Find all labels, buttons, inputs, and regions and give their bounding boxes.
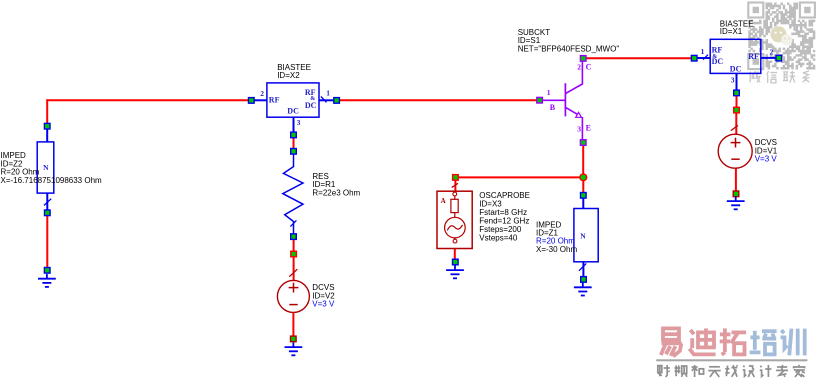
svg-text:1: 1 bbox=[547, 88, 551, 97]
svg-text:Vsteps=40: Vsteps=40 bbox=[479, 234, 518, 243]
pin number X2-2 bbox=[260, 89, 264, 98]
node: wire end at oscaprobe bbox=[453, 175, 459, 181]
wire: collector bus Q1 to X1 pin1 bbox=[586, 57, 691, 59]
node: wire end above V2 bbox=[291, 251, 297, 257]
impedance Z2 pin2 stub bbox=[46, 193, 48, 210]
wire: X1 pin3 segment bbox=[736, 96, 738, 108]
node: Q1 collector pin bbox=[580, 56, 586, 62]
svg-text:3: 3 bbox=[297, 118, 301, 127]
node: wire end below X1 bbox=[734, 107, 740, 113]
label V1 values bbox=[755, 138, 778, 164]
watermark logo yiditou-peixun bbox=[661, 328, 805, 356]
impedance Z2 pin1 stub bbox=[46, 129, 48, 142]
node: X1 pin2 bbox=[776, 55, 782, 61]
impedance Z1 pin1 stub bbox=[582, 198, 584, 208]
pin number X2-1 bbox=[326, 88, 330, 97]
bias tee X1 pin2 stub bbox=[761, 57, 776, 59]
bias tee X1 pin1 stub bbox=[697, 57, 710, 59]
label R1 values bbox=[312, 172, 360, 198]
wire: Z2 bottom to ground bbox=[46, 216, 48, 268]
node: X2 pin3 bbox=[291, 132, 297, 138]
junction node emitter net bbox=[580, 174, 587, 181]
bias tee X1 port labels bbox=[712, 46, 759, 74]
pin number X1-1 bbox=[701, 47, 705, 56]
pin number X1-3 bbox=[731, 76, 735, 85]
pin number X1-2 bbox=[770, 47, 774, 56]
wire: X1 pin3 to V1 plus bbox=[735, 113, 737, 134]
dc source V1 pin1 slash bbox=[731, 125, 738, 130]
pin number Q1-2 collector bbox=[577, 63, 581, 72]
label S1 subckt bbox=[518, 28, 620, 54]
svg-text:NET="BFP640FESD_MWO": NET="BFP640FESD_MWO" bbox=[518, 44, 620, 53]
svg-text:N: N bbox=[580, 232, 586, 241]
svg-text:DC: DC bbox=[730, 64, 742, 73]
label X1 bbox=[720, 20, 754, 36]
bias tee X1 body bbox=[710, 39, 761, 73]
svg-text:3: 3 bbox=[577, 124, 581, 133]
wire: R1 to V2 plus terminal bbox=[293, 257, 295, 281]
node: Q1 base pin bbox=[537, 97, 543, 103]
pin number Q1-1 base bbox=[547, 88, 551, 97]
watermark text weixin-lianxi bbox=[749, 71, 810, 83]
watermark logo underline bbox=[656, 359, 807, 361]
pin number Q1-3 emitter bbox=[577, 124, 581, 133]
svg-text:C: C bbox=[586, 63, 592, 72]
svg-text:2: 2 bbox=[770, 47, 774, 56]
svg-text:B: B bbox=[550, 103, 556, 112]
bias tee X2 port labels bbox=[269, 88, 317, 115]
bias tee X2 pin3 stub bbox=[293, 117, 295, 132]
node: oscaprobe ground pin bbox=[453, 259, 459, 265]
resistor R1 zigzag bbox=[283, 154, 303, 233]
node: Z2 pin2 bbox=[45, 210, 51, 216]
node: X2 pin1 bbox=[334, 98, 340, 104]
svg-text:RF: RF bbox=[748, 52, 759, 61]
node: V2 minus pin bbox=[291, 336, 297, 342]
svg-text:V=3 V: V=3 V bbox=[755, 155, 778, 164]
node: Z2 ground pin bbox=[44, 268, 50, 274]
svg-text:DC: DC bbox=[287, 107, 299, 116]
ground under oscaprobe bbox=[446, 266, 464, 279]
dc source V2 pin1 slash bbox=[289, 269, 297, 277]
wire: V2 minus to ground bbox=[292, 312, 294, 336]
label Z2 values bbox=[1, 151, 103, 185]
ground under Z1 bbox=[574, 283, 592, 296]
wire: main bus X2 pin1 to Q1 base bbox=[340, 99, 537, 101]
bias tee X1 pin3 stub bbox=[736, 73, 738, 90]
wire: Z2 top vertical bbox=[46, 99, 48, 123]
wire: R1 bottom segment bbox=[293, 240, 295, 252]
svg-text:1: 1 bbox=[701, 47, 705, 56]
ground under V1 bbox=[727, 197, 745, 210]
svg-text:X=-30 Ohm: X=-30 Ohm bbox=[536, 245, 577, 254]
impedance Z2 body bbox=[37, 142, 54, 193]
node: V1 minus pin bbox=[733, 191, 739, 197]
wire: oscaprobe bottom to ground bbox=[454, 248, 456, 259]
label Z1 values bbox=[536, 220, 577, 254]
wire: oscaprobe top stub bbox=[454, 180, 456, 190]
svg-text:ID=X2: ID=X2 bbox=[277, 71, 300, 80]
node: R1 pin1 bbox=[291, 149, 297, 155]
wire: V1 minus to ground bbox=[735, 168, 737, 191]
transistor Q1 symbol bbox=[543, 61, 583, 139]
svg-text:X=-16.7168751098633 Ohm: X=-16.7168751098633 Ohm bbox=[1, 176, 103, 185]
dc source V1 circle bbox=[718, 134, 752, 168]
svg-text:2: 2 bbox=[260, 89, 264, 98]
svg-text:RF: RF bbox=[269, 95, 280, 104]
svg-text:3: 3 bbox=[731, 76, 735, 85]
oscaprobe X3 body bbox=[437, 191, 472, 248]
watermark tagline sheping-tianxian bbox=[658, 365, 805, 377]
wire: X2 pin3 segment bbox=[293, 138, 295, 149]
svg-text:DC: DC bbox=[305, 101, 317, 110]
svg-text:R=22e3 Ohm: R=22e3 Ohm bbox=[312, 188, 360, 197]
dc source V2 circle bbox=[277, 280, 309, 312]
pin label Q1 C bbox=[586, 63, 592, 72]
impedance Z1 body bbox=[574, 209, 598, 262]
ground under Z2 bbox=[38, 274, 56, 287]
svg-text:2: 2 bbox=[577, 63, 581, 72]
bias tee X1 pin1 slash bbox=[703, 55, 708, 60]
bias tee X2 pin1 slash bbox=[321, 97, 327, 103]
impedance Z1 pin2 stub bbox=[582, 262, 584, 277]
pin number X2-3 bbox=[297, 118, 301, 127]
bias tee X2 pin2 stub bbox=[254, 99, 267, 101]
wire: junction to Z1 bbox=[582, 180, 584, 192]
wire: main bus Z2 to X2 pin2 bbox=[46, 99, 248, 101]
ground under V2 bbox=[285, 343, 303, 356]
label X3 values bbox=[479, 191, 530, 243]
node: Z1 ground pin bbox=[581, 277, 587, 283]
pin label Q1 B bbox=[550, 103, 556, 112]
node: X1 pin3 bbox=[734, 90, 740, 96]
label X2 bbox=[277, 63, 311, 80]
svg-text:N: N bbox=[43, 163, 49, 172]
label V2 values bbox=[312, 283, 335, 309]
watermark QR code bbox=[748, 3, 815, 70]
node: Q1 emitter pin bbox=[580, 140, 586, 146]
node: Z1 pin1 bbox=[581, 193, 587, 199]
svg-text:A: A bbox=[441, 197, 446, 205]
impedance Z2 pin2 slash bbox=[44, 199, 51, 206]
node: X2 pin2 bbox=[249, 98, 255, 104]
svg-text:V=3 V: V=3 V bbox=[312, 300, 335, 309]
bias tee X2 body bbox=[267, 83, 319, 117]
node: Z2 pin1 bbox=[44, 123, 50, 129]
bias tee X2 pin1 stub bbox=[319, 99, 334, 101]
pin label Q1 E bbox=[586, 124, 591, 133]
wire: emitter to junction node bbox=[582, 145, 584, 176]
svg-text:ID=X1: ID=X1 bbox=[720, 27, 743, 36]
svg-text:DC: DC bbox=[712, 57, 724, 66]
svg-text:1: 1 bbox=[326, 88, 330, 97]
impedance Z1 pin2 slash bbox=[579, 263, 586, 270]
oscaprobe X3 pin1 slash bbox=[452, 183, 458, 187]
node: X1 pin1 bbox=[691, 55, 697, 61]
node: R1 pin2 bbox=[291, 234, 297, 240]
wire: junction to oscaprobe bbox=[458, 176, 581, 178]
resistor R1 pin2 slash bbox=[290, 220, 296, 226]
svg-text:E: E bbox=[586, 124, 591, 133]
